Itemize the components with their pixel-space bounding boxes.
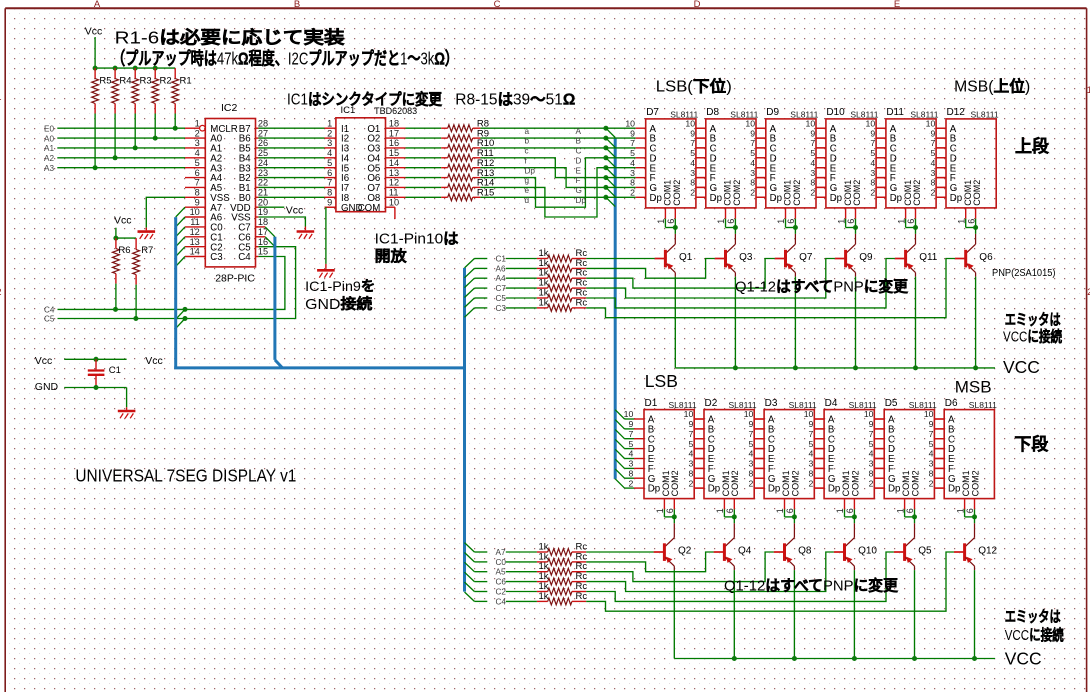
svg-text:COM2: COM2	[910, 470, 920, 496]
junction dots segment bus taps	[603, 126, 608, 200]
transistor Q9 (PNP)	[835, 228, 873, 368]
wires D3 to D4 segment pins	[814, 419, 824, 488]
display D1 COM pins	[655, 499, 677, 520]
svg-text:Dp: Dp	[830, 193, 842, 204]
7-seg display driver D11 (SL8111)	[866, 107, 939, 208]
svg-text:Dp: Dp	[890, 193, 902, 204]
svg-text:4: 4	[930, 158, 935, 168]
wires D4 to D5 segment pins	[874, 419, 884, 488]
svg-text:SL8111: SL8111	[969, 400, 997, 410]
bus from IC2 left pins (vertical)	[174, 217, 177, 368]
svg-text:2: 2	[630, 188, 635, 198]
svg-text:c: c	[525, 147, 529, 156]
svg-text:10: 10	[684, 409, 694, 419]
svg-text:COM2: COM2	[730, 470, 740, 496]
resistor R10	[406, 138, 495, 151]
svg-text:3: 3	[750, 168, 755, 178]
display D4 COM pins	[835, 499, 857, 520]
svg-text:28: 28	[258, 118, 268, 128]
svg-text:4: 4	[688, 449, 693, 459]
svg-text:D5: D5	[885, 398, 898, 409]
svg-text:Q7: Q7	[799, 252, 813, 263]
svg-text:（プルアップ時は47kΩ程度、I2Cプルアップだと1～3kΩ: （プルアップ時は47kΩ程度、I2Cプルアップだと1～3kΩ）	[112, 49, 458, 69]
svg-text:D11: D11	[886, 107, 904, 118]
svg-text:Dp: Dp	[888, 484, 900, 495]
svg-text:6: 6	[195, 168, 200, 178]
svg-text:17: 17	[389, 128, 399, 138]
svg-text:8: 8	[870, 178, 875, 188]
svg-text:C1: C1	[496, 255, 507, 264]
net labels A-Dp (right of crossover)	[576, 127, 587, 205]
svg-text:9: 9	[688, 419, 693, 429]
svg-text:上段: 上段	[1015, 136, 1049, 156]
bus entries IC2 pins 9-14 to bus	[176, 207, 185, 266]
svg-text:18: 18	[389, 118, 399, 128]
svg-text:2: 2	[869, 478, 874, 488]
svg-text:C4: C4	[238, 252, 251, 263]
svg-text:VCCに接続: VCCに接続	[1005, 626, 1064, 644]
svg-text:5: 5	[810, 148, 815, 158]
power symbol Vcc at IC2 VDD pin 20	[258, 204, 303, 216]
svg-text:6: 6	[725, 508, 735, 513]
display D10 COM pins	[836, 208, 858, 230]
svg-text:3: 3	[929, 459, 934, 469]
svg-text:COM2: COM2	[670, 470, 680, 496]
svg-text:C6: C6	[496, 578, 507, 587]
svg-text:Q1-12はすべてPNPに変更: Q1-12はすべてPNPに変更	[735, 278, 909, 296]
svg-text:7: 7	[929, 429, 934, 439]
bus entry IC2 pin 17 C6	[256, 237, 275, 247]
svg-text:7: 7	[869, 429, 874, 439]
svg-text:26: 26	[258, 138, 268, 148]
svg-text:Dp: Dp	[770, 193, 782, 204]
svg-text:D9: D9	[766, 107, 779, 118]
svg-text:IC1-Pin9を: IC1-Pin9を	[305, 278, 375, 294]
svg-text:C0: C0	[496, 558, 507, 567]
IC2 right pin names	[230, 124, 251, 263]
svg-text:4: 4	[690, 158, 695, 168]
svg-text:R1-6は必要に応じて実装: R1-6は必要に応じて実装	[115, 28, 346, 48]
bus riser to displays	[614, 138, 617, 479]
svg-text:D7: D7	[646, 107, 659, 118]
svg-text:9: 9	[327, 197, 332, 207]
resistor R8	[406, 118, 490, 131]
svg-text:21: 21	[258, 188, 268, 198]
transistor Q2 (PNP)	[654, 517, 692, 659]
net label GND	[35, 381, 59, 393]
svg-text:F: F	[576, 176, 581, 185]
wire net C5 from IC2 pin 16	[58, 247, 296, 329]
svg-text:2: 2	[688, 478, 693, 488]
svg-text:9: 9	[630, 128, 635, 138]
wires D11 to D12 segment pins	[936, 128, 946, 197]
svg-text:R7: R7	[141, 245, 153, 256]
svg-text:B: B	[294, 0, 300, 10]
svg-text:3: 3	[870, 168, 875, 178]
svg-text:Q1-12はすべてPNPに変更: Q1-12はすべてPNPに変更	[724, 577, 899, 595]
svg-text:3: 3	[688, 459, 693, 469]
svg-text:エミッタは: エミッタは	[1005, 609, 1061, 626]
svg-text:9: 9	[750, 128, 755, 138]
svg-text:D4: D4	[825, 398, 838, 409]
display D7 COM pins	[656, 208, 678, 230]
svg-text:下段: 下段	[1014, 434, 1048, 454]
resistor R1	[172, 68, 192, 131]
svg-text:7: 7	[327, 178, 332, 188]
svg-text:Vcc: Vcc	[145, 355, 163, 367]
svg-text:1: 1	[836, 219, 846, 224]
bus riser to Rc networks	[463, 268, 466, 592]
svg-text:a: a	[525, 127, 530, 136]
svg-text:2: 2	[327, 128, 332, 138]
svg-text:1: 1	[776, 219, 786, 224]
IC U2 (IC2 28P-PIC) body	[205, 102, 255, 285]
7-seg display driver D4 (SL8111)	[804, 398, 877, 499]
IC1 left pin numbers 1-9	[327, 118, 332, 207]
IC1 right pin stubs	[386, 128, 406, 197]
svg-text:Q12: Q12	[978, 545, 997, 556]
svg-text:16: 16	[389, 138, 399, 148]
resistor R12	[406, 158, 495, 171]
svg-text:9: 9	[628, 419, 633, 429]
svg-text:5: 5	[690, 148, 695, 158]
svg-text:1: 1	[775, 508, 785, 513]
resistor Rc (C2 branch)	[465, 552, 894, 601]
svg-text:2: 2	[750, 188, 755, 198]
svg-text:LSB(下位): LSB(下位)	[656, 77, 732, 96]
7-seg display driver D3 (SL8111)	[744, 398, 817, 499]
resistor R13	[406, 168, 495, 181]
svg-text:A3: A3	[44, 164, 54, 173]
svg-text:2: 2	[930, 188, 935, 198]
svg-text:C: C	[576, 147, 582, 156]
svg-text:D2: D2	[705, 398, 718, 409]
svg-text:GND: GND	[35, 381, 59, 393]
svg-text:R6: R6	[118, 245, 130, 256]
svg-text:19: 19	[258, 207, 268, 217]
IC1 right pin numbers 18-10	[389, 118, 399, 207]
IC1 left pin stubs	[325, 128, 336, 207]
svg-text:6: 6	[666, 219, 676, 224]
svg-text:IC1-Pin10は: IC1-Pin10は	[375, 231, 459, 248]
svg-text:Rc: Rc	[576, 591, 588, 602]
svg-text:エミッタは: エミッタは	[1005, 312, 1061, 329]
transistor Q7 (PNP)	[775, 228, 813, 368]
svg-text:5: 5	[929, 439, 934, 449]
svg-text:Dp: Dp	[648, 484, 660, 495]
IC2 left pin numbers 1-14	[190, 118, 200, 256]
svg-text:22: 22	[258, 178, 268, 188]
resistor Rc (C3 branch)	[465, 259, 955, 318]
bus entries display bus to D1	[615, 410, 624, 488]
svg-text:4: 4	[869, 449, 874, 459]
svg-text:D6: D6	[945, 398, 958, 409]
svg-text:7: 7	[809, 429, 814, 439]
svg-text:Dp: Dp	[708, 484, 720, 495]
wires segment nets to D7	[606, 128, 636, 197]
svg-text:2: 2	[195, 128, 200, 138]
svg-text:10: 10	[926, 118, 936, 128]
7-seg display driver D7 (SL8111)	[625, 107, 698, 208]
svg-text:15: 15	[389, 148, 399, 158]
IC1 pin names	[341, 124, 381, 214]
svg-text:Dp: Dp	[950, 193, 962, 204]
svg-text:9: 9	[870, 128, 875, 138]
display D5 COM pins	[895, 499, 917, 520]
svg-text:28P-PIC: 28P-PIC	[215, 273, 255, 285]
wire segment net b (row2)	[480, 137, 606, 139]
svg-text:18: 18	[258, 217, 268, 227]
7-seg display driver D2 (SL8111)	[684, 398, 757, 499]
resistor R11	[406, 148, 494, 161]
svg-text:SL8111: SL8111	[971, 109, 999, 119]
svg-text:Q5: Q5	[918, 545, 932, 556]
wire net E0	[57, 127, 185, 129]
svg-text:R8-15は39～51Ω: R8-15は39～51Ω	[455, 91, 575, 108]
svg-text:IC2: IC2	[221, 102, 238, 114]
svg-text:8: 8	[690, 178, 695, 188]
svg-text:4: 4	[195, 148, 200, 158]
bus horizontal run	[174, 366, 464, 369]
svg-text:8: 8	[195, 188, 200, 198]
svg-text:COM: COM	[358, 203, 381, 214]
svg-text:5: 5	[930, 148, 935, 158]
svg-text:COM2: COM2	[792, 180, 802, 206]
svg-text:LSB: LSB	[645, 371, 678, 391]
svg-text:25: 25	[258, 148, 268, 158]
svg-text:1: 1	[895, 508, 905, 513]
svg-text:MSB: MSB	[955, 378, 992, 397]
svg-text:D3: D3	[765, 398, 778, 409]
resistor Rc (C4 branch)	[465, 552, 954, 611]
svg-text:C5: C5	[44, 315, 55, 324]
svg-text:8: 8	[749, 468, 754, 478]
display D12 COM pins	[956, 208, 978, 230]
resistor R9	[406, 128, 490, 141]
svg-text:Q11: Q11	[919, 252, 938, 263]
wires IC2 B7-B0 to IC1 I1-I8	[258, 128, 324, 197]
wire net A1	[57, 147, 185, 149]
svg-text:R2: R2	[160, 76, 172, 87]
svg-text:Q3: Q3	[739, 252, 753, 263]
svg-text:8: 8	[630, 178, 635, 188]
wires D9 to D10 segment pins	[816, 128, 826, 197]
svg-text:COM2: COM2	[912, 180, 922, 206]
svg-text:A7: A7	[496, 548, 506, 557]
svg-text:d: d	[525, 196, 530, 205]
bus entries segment nets to display bus	[606, 128, 615, 206]
svg-text:7: 7	[750, 138, 755, 148]
svg-text:2: 2	[749, 478, 754, 488]
resistor R15	[406, 188, 495, 201]
resistor Rc (A4 branch)	[465, 259, 775, 289]
svg-text:1: 1	[896, 219, 906, 224]
svg-text:8: 8	[628, 468, 633, 478]
svg-text:2: 2	[929, 478, 934, 488]
svg-text:Dp: Dp	[710, 193, 722, 204]
display D8 COM pins	[716, 208, 738, 230]
svg-text:Dp: Dp	[828, 484, 840, 495]
wire VCC emitter rail (bottom)	[674, 656, 995, 661]
svg-text:10: 10	[625, 118, 635, 128]
svg-text:3: 3	[630, 168, 635, 178]
svg-text:1: 1	[327, 118, 332, 128]
svg-text:9: 9	[749, 419, 754, 429]
ground at IC2 VSS pin 8	[138, 197, 186, 239]
svg-text:A: A	[94, 0, 101, 10]
svg-text:6: 6	[966, 219, 976, 224]
svg-text:C4: C4	[44, 306, 55, 315]
net labels a-d (left of crossover)	[525, 127, 536, 205]
wires D5 to D6 segment pins	[934, 419, 944, 488]
svg-text:7: 7	[749, 429, 754, 439]
svg-text:20: 20	[258, 197, 268, 207]
resistor R5	[92, 68, 112, 170]
svg-text:D: D	[576, 157, 582, 166]
svg-text:2: 2	[870, 188, 875, 198]
svg-text:E: E	[576, 166, 582, 175]
svg-text:10: 10	[804, 409, 814, 419]
svg-text:8: 8	[327, 188, 332, 198]
display D11 COM pins	[896, 208, 918, 230]
svg-text:COM2: COM2	[971, 470, 981, 496]
svg-text:3: 3	[628, 459, 633, 469]
svg-text:10: 10	[745, 118, 755, 128]
transistor Q4 (PNP)	[714, 517, 752, 659]
svg-text:1: 1	[716, 219, 726, 224]
svg-text:2: 2	[0, 287, 2, 297]
svg-text:1k: 1k	[539, 297, 549, 308]
svg-text:24: 24	[258, 158, 268, 168]
svg-text:Q10: Q10	[858, 545, 877, 556]
svg-text:A1: A1	[44, 144, 54, 153]
bus from IC2 right pins	[275, 237, 283, 368]
IC2 right pin stubs	[256, 128, 259, 256]
svg-text:D12: D12	[947, 107, 966, 118]
resistor R2	[152, 68, 172, 141]
7-seg display driver D6 (SL8111)	[924, 398, 997, 499]
svg-text:Vcc: Vcc	[35, 355, 53, 367]
IC2 pin 1 MCLR inverting circle	[185, 125, 205, 131]
ground symbol at C1	[118, 407, 136, 418]
svg-text:A0: A0	[44, 134, 54, 143]
svg-text:E0: E0	[44, 124, 54, 133]
ground at IC2 VSS pin 19	[258, 217, 314, 239]
svg-text:4: 4	[929, 449, 934, 459]
power symbol VCC (pull-up rail)	[85, 25, 103, 68]
svg-text:4: 4	[628, 449, 633, 459]
power symbol Vcc (supply)	[35, 355, 127, 367]
resistor Rc (A6 branch)	[465, 258, 715, 278]
svg-text:C2: C2	[496, 588, 507, 597]
svg-text:4: 4	[750, 158, 755, 168]
svg-text:15: 15	[258, 247, 268, 257]
wires D8 to D9 segment pins	[756, 128, 766, 197]
svg-text:Vcc: Vcc	[85, 25, 103, 37]
svg-text:9: 9	[810, 128, 815, 138]
svg-text:Q4: Q4	[738, 545, 752, 556]
svg-text:7: 7	[195, 178, 200, 188]
wire segment net e (crossover)	[480, 168, 606, 217]
svg-text:4: 4	[810, 158, 815, 168]
wire net C4 from IC2 pin 15	[58, 257, 285, 320]
svg-text:5: 5	[809, 439, 814, 449]
svg-text:e: e	[525, 186, 530, 195]
svg-text:Vcc: Vcc	[114, 215, 132, 227]
transistor Q6 (PNP)	[955, 228, 993, 368]
svg-text:14: 14	[190, 247, 200, 257]
svg-text:GND接続: GND接続	[305, 295, 373, 313]
wires display bus to D1	[625, 419, 635, 488]
svg-text:b: b	[525, 137, 530, 146]
svg-text:10: 10	[864, 409, 874, 419]
svg-text:9: 9	[690, 128, 695, 138]
svg-text:11: 11	[190, 217, 200, 227]
svg-text:Dp: Dp	[576, 196, 587, 205]
wire segment net g (crossover)	[480, 158, 606, 207]
svg-text:9: 9	[929, 419, 934, 429]
svg-text:Dp: Dp	[525, 166, 536, 175]
resistor R14	[406, 178, 495, 191]
svg-text:A5: A5	[496, 568, 506, 577]
svg-text:8: 8	[810, 178, 815, 188]
svg-text:6: 6	[665, 508, 675, 513]
resistor Rc (A7 branch)	[465, 541, 654, 557]
transistor Q5 (PNP)	[894, 517, 932, 659]
svg-text:MSB(上位): MSB(上位)	[954, 77, 1030, 96]
svg-text:COM2: COM2	[850, 470, 860, 496]
wire segment net d (row8)	[480, 196, 606, 198]
resistor R7	[133, 238, 154, 318]
svg-text:R4: R4	[119, 76, 131, 87]
svg-text:R5: R5	[99, 76, 111, 87]
svg-text:7: 7	[688, 429, 693, 439]
svg-text:27: 27	[258, 128, 268, 138]
svg-text:3: 3	[195, 138, 200, 148]
svg-text:Vcc: Vcc	[286, 204, 304, 216]
transistor Q12 (PNP)	[954, 517, 998, 659]
svg-text:1k: 1k	[539, 591, 549, 602]
svg-text:8: 8	[688, 468, 693, 478]
resistor Rc (C1 branch)	[465, 248, 655, 268]
svg-text:C3: C3	[496, 304, 507, 313]
svg-text:7: 7	[810, 138, 815, 148]
svg-text:4: 4	[749, 449, 754, 459]
resistor R3	[132, 68, 152, 150]
wires D10 to D11 segment pins	[876, 128, 886, 197]
svg-text:B: B	[576, 137, 582, 146]
svg-text:4: 4	[809, 449, 814, 459]
transistor Q10 (PNP)	[834, 517, 878, 659]
svg-text:7: 7	[628, 429, 633, 439]
display D3 COM pins	[775, 499, 797, 520]
resistor Rc (C6 branch)	[465, 552, 834, 592]
svg-text:2: 2	[809, 478, 814, 488]
svg-text:7: 7	[870, 138, 875, 148]
svg-text:8: 8	[930, 178, 935, 188]
svg-text:7: 7	[930, 138, 935, 148]
power symbol Vcc at R6/R7	[113, 215, 136, 241]
svg-text:g: g	[525, 176, 530, 185]
svg-text:2: 2	[690, 188, 695, 198]
svg-text:1: 1	[655, 508, 665, 513]
7-seg display driver D10 (SL8111)	[806, 107, 879, 208]
wire net A2	[57, 157, 185, 159]
svg-text:6: 6	[786, 219, 796, 224]
svg-text:C3: C3	[210, 252, 222, 263]
display D9 COM pins	[776, 208, 798, 230]
svg-text:Dp: Dp	[948, 484, 960, 495]
